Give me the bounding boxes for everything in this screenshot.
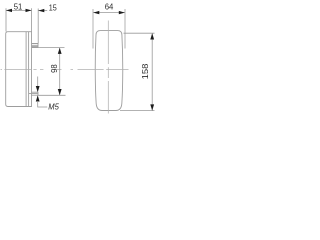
dimension 158 [120,33,155,110]
svg-text:15: 15 [49,3,57,13]
dimension 98 [38,48,65,96]
arrow 15 [38,9,44,12]
plate line inner 2 [28,32,30,107]
dimension 15 [38,9,47,44]
dimension 64 [93,12,125,14]
M5 arrow pointing down [36,86,40,92]
centerline horizontal front view [71,69,129,71]
arrow 98 top [58,48,62,54]
arrow 51 right [26,9,32,12]
front view body [95,31,123,111]
centerline vertical front view [107,21,109,114]
arrow 158 bottom [150,104,154,110]
svg-text:98: 98 [49,64,59,73]
M5 upper arrow [37,77,39,87]
arrow 158 top [150,33,154,39]
arrow 98 bottom [58,89,62,95]
body outline front view [95,31,123,111]
svg-text:158: 158 [141,63,150,79]
centerline left view [1,69,62,71]
body outline left side view [6,32,32,107]
svg-text:51: 51 [14,1,23,11]
bottom stud [29,92,38,95]
plate line inner 1 [25,32,27,107]
svg-text:M5: M5 [48,102,59,111]
arrow 51 left [6,9,12,12]
arrow 64 right [119,11,125,14]
top stud [32,44,39,48]
plate edge left front view [93,9,125,49]
M5 leader line [38,101,48,107]
dimension 51 [6,8,32,31]
svg-text:64: 64 [105,1,114,11]
M5 arrow pointing up [36,95,40,101]
arrow 64 left [93,11,99,14]
